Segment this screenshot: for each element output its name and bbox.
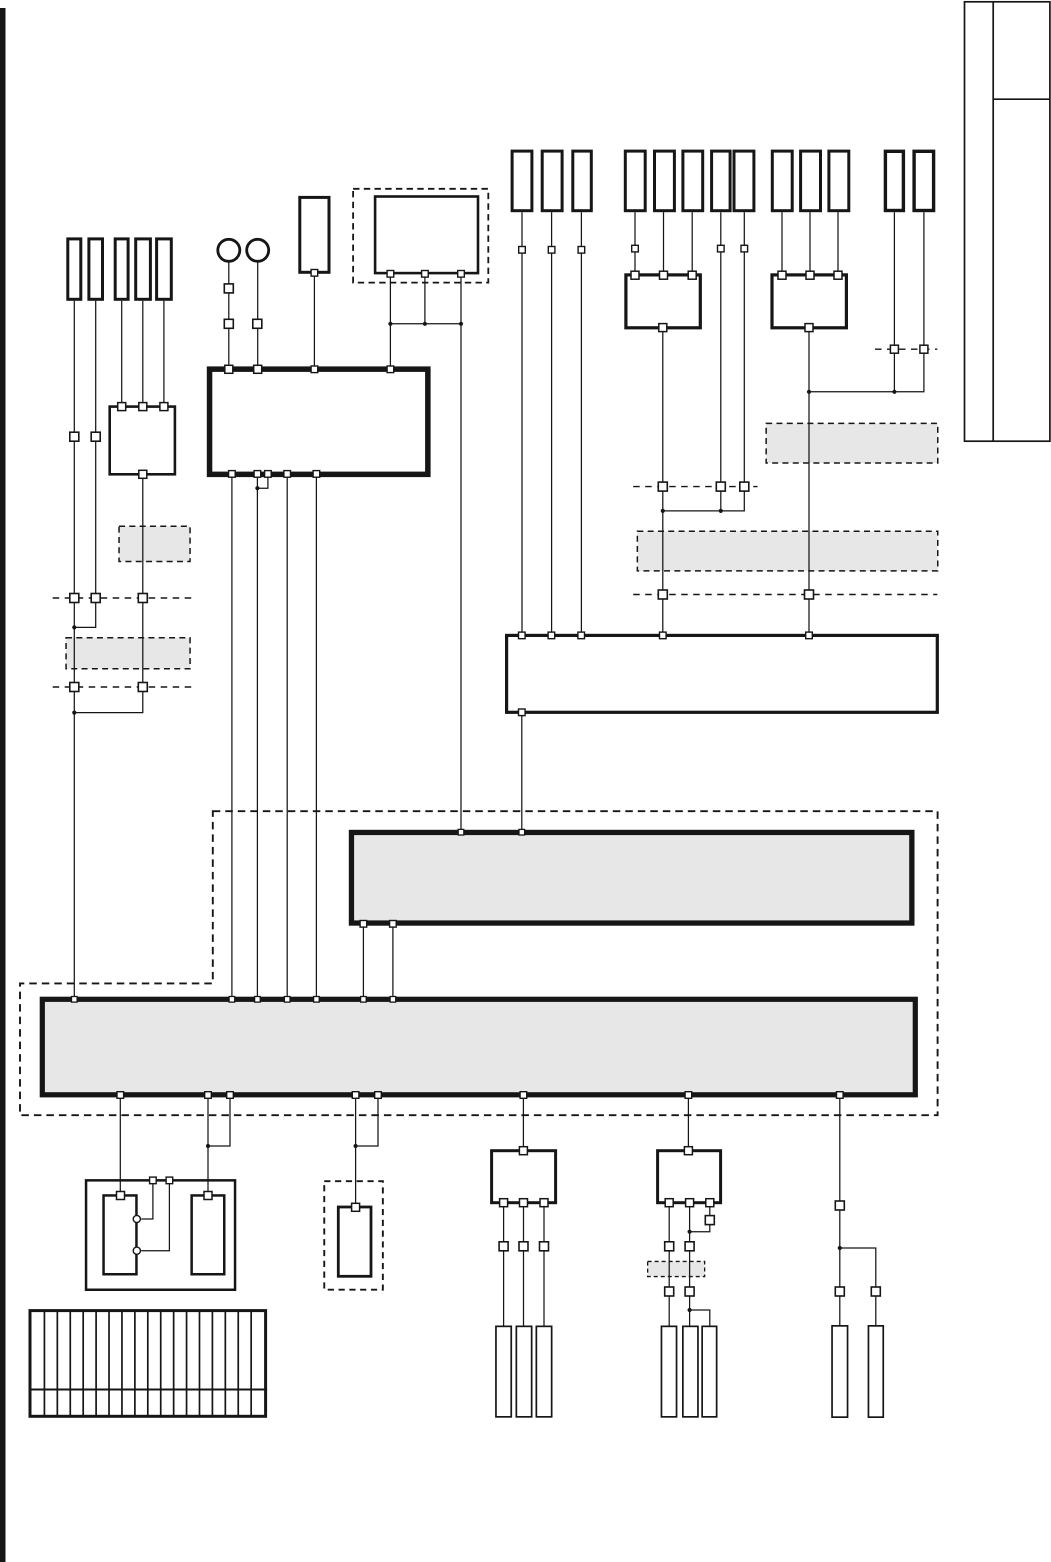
title block table xyxy=(965,2,1050,441)
wire gray2 to option unit xyxy=(355,1097,357,1206)
dashed enclosure (motor assy) xyxy=(353,189,488,283)
wire CN213 down join xyxy=(809,212,924,392)
inline connectors on dashed line R3 xyxy=(890,345,928,353)
connector CN212 xyxy=(885,151,903,210)
inline connectors on dashed line L1 xyxy=(70,594,148,603)
pin on PSU block2 xyxy=(204,1192,212,1200)
wire driver D out2 xyxy=(689,1204,691,1325)
wire branch to CN306 xyxy=(690,1310,710,1326)
pins on PSU frame top xyxy=(150,1177,173,1184)
dashed link line R3 xyxy=(875,348,937,350)
junction option unit merge xyxy=(354,1144,358,1148)
wire SW2 to main board xyxy=(257,262,259,366)
option unit inner xyxy=(338,1207,371,1276)
wire main board out3 join xyxy=(257,477,268,488)
binding margin bar xyxy=(0,8,6,1562)
pins on gray board 1 bottom xyxy=(360,921,396,928)
inline connectors group1 xyxy=(519,247,585,254)
connector CN204 xyxy=(625,151,645,211)
terminal circle PSU lower xyxy=(133,1247,140,1254)
dashed link line L2 xyxy=(53,686,195,688)
pin on sub board bottom xyxy=(139,470,147,478)
wire gray2 join PSU xyxy=(208,1097,230,1146)
pins on relay board A xyxy=(631,271,696,331)
junction PSU merge xyxy=(206,1144,210,1148)
connector CN208 xyxy=(734,151,754,211)
pins on gray board 1 top xyxy=(458,829,524,835)
inline connectors row low xyxy=(665,1287,881,1296)
connector CN304 xyxy=(661,1326,676,1417)
wire gray2 to CN307 xyxy=(839,1097,841,1325)
dashed link line R1 xyxy=(633,486,757,488)
wire CN208 down join xyxy=(663,212,745,511)
wire CN202 to engine board xyxy=(551,212,553,634)
pin on driver C top xyxy=(519,1147,527,1155)
connector CN207 xyxy=(712,151,731,211)
pins on main board bottom xyxy=(229,471,320,478)
wire sub board down xyxy=(74,476,143,713)
connector CN306 xyxy=(702,1326,717,1417)
wire driver D out3 join xyxy=(690,1204,710,1232)
driver board C xyxy=(492,1151,556,1203)
wire motor pin2 xyxy=(424,274,426,323)
pins on gray board 2 top xyxy=(72,997,396,1003)
wire motor pin3 long xyxy=(460,274,462,829)
connector CN308 xyxy=(868,1326,883,1417)
wire SW1 to main board xyxy=(228,262,230,366)
wire PSU internal 1 xyxy=(141,1181,153,1219)
wire CN209 to relay B xyxy=(781,212,783,273)
wire CN203 to engine board xyxy=(580,212,582,634)
junctions driver D merges xyxy=(688,1230,692,1313)
junction main out3 xyxy=(255,486,259,490)
switch SW1 xyxy=(218,239,240,261)
gray dashed option small xyxy=(648,1261,705,1276)
wire driver D out1 xyxy=(668,1204,670,1325)
gray dashed option R2 xyxy=(637,531,937,571)
wire gray2 to driver D xyxy=(687,1097,689,1149)
wire gray2 to PSU block1 xyxy=(119,1097,121,1195)
pin on engine board bottom xyxy=(519,709,526,716)
terminal strip pin dividers xyxy=(44,1311,251,1417)
wire branch to CN308 xyxy=(840,1248,876,1326)
gray board 1 (option controller) xyxy=(351,832,911,923)
connector CN305 xyxy=(683,1326,698,1417)
connector CN202 xyxy=(542,151,562,211)
junctions on motor bus xyxy=(388,322,463,326)
power supply block 2 xyxy=(192,1195,225,1274)
dashed link line L1 xyxy=(53,597,195,599)
connector CN211 xyxy=(829,151,849,211)
wire motor bus xyxy=(390,323,461,325)
gray board 2 (option main) xyxy=(42,999,915,1095)
wire CN207 down xyxy=(720,212,722,511)
connector CN301 xyxy=(496,1326,511,1417)
dashed option region outline xyxy=(20,811,938,1115)
wire motor pin1 to main board xyxy=(389,274,391,366)
inline connectors below switches xyxy=(224,284,261,328)
power supply block 1 xyxy=(104,1195,137,1274)
wire CN204 to relay A xyxy=(634,212,636,273)
wire driver C out1 xyxy=(503,1204,505,1325)
connector CN303 xyxy=(536,1326,551,1417)
pin on sensor unit xyxy=(311,270,318,277)
wire gray2 to driver C xyxy=(522,1097,524,1149)
main board (top-left) xyxy=(210,369,428,474)
wire CN210 to relay B xyxy=(809,212,811,273)
inline connectors on dashed line R1 xyxy=(658,482,749,491)
connector CN103 xyxy=(115,239,128,299)
connector CN205 xyxy=(655,151,675,211)
sensor unit xyxy=(300,197,329,272)
pins on relay board B xyxy=(778,271,842,331)
wire gray2 join option unit xyxy=(356,1097,378,1146)
wire PSU internal 2 xyxy=(141,1181,169,1251)
junctions CN212/CN213 merge xyxy=(807,390,897,394)
wire CN211 to relay B xyxy=(837,212,839,273)
inline connectors group2 xyxy=(632,245,748,252)
connector CN105 xyxy=(157,239,172,299)
wire CN206 to relay A xyxy=(691,212,693,273)
wire main board out5 xyxy=(315,477,317,997)
wire main board out1 xyxy=(231,477,233,997)
wire CN101 to option main xyxy=(73,301,75,997)
junction sub board merge xyxy=(72,711,76,715)
wire CN212 down xyxy=(893,212,895,392)
pin on driver D top xyxy=(684,1147,692,1155)
wire CN105 to sub board xyxy=(163,301,165,406)
inline connectors on dashed line R2 xyxy=(658,590,813,599)
relay board A xyxy=(626,275,700,328)
motor unit xyxy=(375,197,478,274)
gray dashed option R1 xyxy=(766,423,938,463)
connector CN210 xyxy=(801,151,821,211)
connector CN104 xyxy=(136,239,151,299)
inline connector right drop xyxy=(835,1201,844,1210)
junction CN102 merge xyxy=(72,625,76,629)
pins on main board top xyxy=(225,365,262,373)
wire gray1 to gray2 b xyxy=(392,926,394,997)
connector CN102 xyxy=(89,239,103,299)
terminal strip xyxy=(30,1311,266,1417)
connector CN203 xyxy=(573,151,592,211)
wire driver C out3 xyxy=(543,1204,545,1325)
pin on option unit inner xyxy=(352,1203,360,1211)
inline connector on driver D branch xyxy=(705,1216,714,1225)
pins on driver D bottom xyxy=(665,1199,714,1207)
wire relay A to engine board xyxy=(662,329,664,633)
relay board B xyxy=(772,275,846,328)
wire gray1 to gray2 a xyxy=(362,926,364,997)
pins on driver C bottom xyxy=(500,1199,548,1207)
inline connectors on dashed line L2 xyxy=(70,683,148,692)
gray dashed option L2 xyxy=(66,638,190,669)
dashed link line R2 xyxy=(633,594,937,596)
wire engine board to gray board 1 xyxy=(521,714,523,830)
pins on motor unit xyxy=(387,271,464,278)
switch SW2 xyxy=(247,239,269,261)
wire CN103 to sub board xyxy=(121,301,123,406)
connector CN206 xyxy=(683,151,703,211)
dashed enclosure (option unit) xyxy=(324,1181,383,1290)
terminal strip row divider xyxy=(29,1389,268,1391)
pin on PSU block1 xyxy=(117,1192,125,1200)
wire sensor to main board xyxy=(313,274,315,367)
pins on gray board 2 bottom xyxy=(117,1092,843,1099)
junctions CN207/CN208 merge xyxy=(661,509,723,513)
junction right branch xyxy=(838,1246,842,1250)
wire gray2 to PSU block2 xyxy=(207,1097,209,1195)
connector CN101 xyxy=(68,239,81,299)
pins on main board top right xyxy=(311,366,394,373)
wire CN102 join xyxy=(74,301,95,628)
gray dashed option L1 xyxy=(119,526,190,561)
wire main board out4 xyxy=(286,477,288,997)
power supply unit frame xyxy=(86,1180,235,1289)
wire main board out2 xyxy=(256,477,258,997)
wire CN104 to sub board xyxy=(142,301,144,406)
pins on engine board top xyxy=(519,632,813,639)
pins on sub board top xyxy=(118,403,168,411)
connector CN213 xyxy=(914,151,934,210)
wire CN201 to engine board xyxy=(521,212,523,634)
inline connectors row mid xyxy=(499,1242,694,1251)
driver board D xyxy=(658,1151,721,1203)
connector CN307 xyxy=(832,1326,848,1417)
connector CN201 xyxy=(512,151,532,211)
inline connector pair CN101/CN102 xyxy=(70,432,100,441)
engine board (middle) xyxy=(507,635,938,712)
wire CN205 to relay A xyxy=(663,212,665,273)
wire driver C out2 xyxy=(523,1204,525,1325)
connector CN302 xyxy=(516,1326,531,1417)
sub board (left) xyxy=(110,407,175,475)
terminal circle PSU upper xyxy=(133,1215,140,1222)
connector CN209 xyxy=(772,151,792,211)
wire relay B to engine board xyxy=(808,329,810,633)
